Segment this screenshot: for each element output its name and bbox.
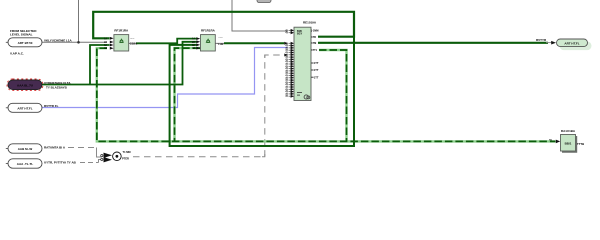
svg-text:3A: 3A	[192, 44, 195, 47]
arrowhead selected net into U2 pin 4	[196, 47, 200, 50]
arrowhead into U3 for dashed gray wire	[284, 54, 287, 57]
arrowhead into U2 pin 1	[196, 37, 200, 40]
tag oval far right with light green shadow	[557, 39, 592, 50]
U3 pin 16	[285, 72, 294, 76]
U3 pin 8	[285, 53, 294, 57]
U3 pin 23	[285, 88, 294, 92]
tag oval2	[6, 103, 42, 112]
output block U4	[549, 129, 584, 152]
wire blue from tag oval2 to U3 (left pin)	[42, 48, 288, 108]
svg-text:2A: 2A	[104, 41, 107, 44]
U3 pin 22	[285, 86, 294, 90]
arrowhead selected net into U1 pin 4	[110, 47, 114, 50]
svg-text:......: ......	[130, 37, 135, 40]
svg-text:1TT: 1TT	[314, 61, 319, 65]
wire green feedback loop U3 output to U1 pin 1 (top enclosure)	[93, 12, 354, 39]
svg-text:ART HT.FL: ART HT.FL	[17, 106, 32, 110]
svg-text:RA1U1BA: RA1U1BA	[561, 129, 576, 133]
arrowhead into U1 pin 1	[110, 37, 114, 40]
svg-text:RE1019A: RE1019A	[303, 21, 317, 25]
labels for purple tag wire	[44, 81, 71, 90]
U3 pin 19	[285, 79, 294, 83]
U3 pin 20	[285, 81, 294, 85]
wire gray net from top edge to tag AVT (vertical drop)	[78, 0, 80, 42]
wire green branch to U1 pin 3	[90, 45, 110, 85]
svg-text:TTTB: TTTB	[577, 142, 584, 146]
svg-text:RVTTR FL: RVTTR FL	[44, 104, 59, 108]
svg-text:1A: 1A	[192, 37, 195, 40]
U3 pin 25	[285, 92, 294, 96]
wire green from purple tag to U2 pin 2 and U1 pin 3	[42, 42, 197, 85]
gray terminator box at top edge	[257, 0, 271, 3]
svg-text:2A: 2A	[192, 41, 195, 44]
svg-text:3A: 3A	[104, 44, 107, 47]
svg-text:AAB M.-W: AAB M.-W	[18, 147, 33, 151]
svg-text:4A: 4A	[192, 47, 195, 50]
U3 pin 21	[285, 83, 294, 87]
arrowhead gray wire into U1 pin 2	[110, 41, 114, 44]
tag oval4	[6, 159, 42, 168]
svg-text:TY BLAZBAYB: TY BLAZBAYB	[46, 86, 68, 90]
tag oval1 (top left)	[6, 38, 42, 47]
arrowhead selected net into U4	[556, 140, 560, 144]
svg-text:T1 MM: T1 MM	[123, 150, 131, 154]
svg-text:4Y: 4Y	[285, 32, 288, 35]
U3 pin 1	[285, 29, 294, 33]
U3 pin 2	[285, 31, 294, 35]
wire dashed gray from tag oval3 down to gate input 1	[68, 148, 102, 158]
relay block U1	[104, 29, 138, 51]
U3 pin 24	[285, 90, 294, 94]
junction dot on green output net	[353, 41, 356, 44]
U3 right stub pins with labels	[311, 30, 319, 80]
U3 pin 11	[285, 60, 294, 64]
U3 pin 4	[285, 44, 294, 48]
U3 pin 6	[285, 49, 294, 53]
U3 pin 3	[285, 42, 294, 46]
svg-text:4Y: 4Y	[285, 95, 288, 98]
U3 pin 5	[285, 46, 294, 50]
U3 pin 12	[285, 63, 294, 67]
wire dashed gray from tag oval4 to gate input 2	[80, 160, 102, 163]
svg-text:1TM: 1TM	[311, 42, 316, 45]
svg-text:1TT: 1TT	[314, 68, 319, 72]
U3 pin 17	[285, 74, 294, 78]
U3 pin 13	[285, 65, 294, 69]
wire selected net underlay (light green)	[97, 48, 556, 141]
svg-text:......: ......	[219, 36, 224, 39]
wire gray from top edge into U3 pin 1	[232, 0, 288, 31]
logic gate / comparator symbol	[101, 152, 121, 162]
wire selected net dark green dashes	[97, 48, 556, 141]
gate labels	[122, 150, 131, 160]
svg-text:1TB: 1TB	[311, 36, 316, 39]
svg-text:LEVEL SIGNAL: LEVEL SIGNAL	[10, 32, 33, 36]
svg-text:TD: TD	[549, 140, 552, 142]
wire gray from tag oval1 to U1 pin 2	[42, 41, 107, 43]
svg-text:ART HT.FL: ART HT.FL	[564, 42, 579, 46]
svg-text:VYDERZHKE FLTA: VYDERZHKE FLTA	[44, 81, 71, 85]
U3 pin 9	[285, 56, 294, 60]
wire green branch loop down to U2 pin 4 (middle enclosure)	[170, 37, 354, 146]
svg-text:V.AP A.C.: V.AP A.C.	[10, 51, 24, 55]
U3 left pin rows	[285, 29, 294, 98]
svg-text:VKLYUCHENIE L1A: VKLYUCHENIE L1A	[44, 38, 73, 42]
svg-text:1TT: 1TT	[314, 75, 319, 79]
svg-text:RF1R1RA: RF1R1RA	[114, 29, 129, 33]
tag oval3	[6, 144, 42, 153]
wire dashed gray from gate output up to U3 left pin	[133, 55, 284, 157]
U3 pin 7	[285, 51, 294, 55]
svg-text:ART BT.50: ART BT.50	[18, 41, 33, 45]
junction dot node A	[77, 41, 80, 44]
svg-text:Y1M: Y1M	[217, 42, 224, 46]
svg-text:UYTR, PYTITYA TY AB: UYTR, PYTITYA TY AB	[44, 160, 77, 164]
svg-text:1A: 1A	[104, 37, 107, 40]
svg-text:RATUMTA BI A: RATUMTA BI A	[44, 145, 66, 149]
wire green U2 output to U3 left pin	[224, 42, 284, 44]
U3 pin 18	[285, 76, 294, 80]
svg-text:BB/1: BB/1	[565, 142, 572, 146]
svg-text:RF1R1RA: RF1R1RA	[201, 29, 216, 33]
corner ticks for dashed gray wire	[262, 55, 268, 157]
arrowhead U2 output into U3	[284, 42, 287, 45]
arrowhead into U1 pin 3	[110, 44, 114, 47]
svg-text:PTER: PTER	[122, 157, 129, 161]
U3 pin 15	[285, 69, 294, 73]
text note top-left	[10, 29, 37, 37]
arrowhead into U2 pin 3	[196, 44, 200, 47]
relay block U2	[192, 29, 224, 51]
main logic block U3	[294, 21, 317, 101]
svg-text:AAA BL.7U: AAA BL.7U	[17, 84, 33, 88]
wire gray tail and arrowhead into right tag oval	[546, 42, 552, 44]
wire green U1 output to U2 pin 1	[136, 39, 197, 44]
svg-text:4A: 4A	[104, 47, 107, 50]
U3 pin 10	[285, 58, 294, 62]
svg-text:1TT1: 1TT1	[311, 49, 317, 52]
svg-text:RVTYR: RVTYR	[536, 38, 547, 42]
U3 pin 14	[285, 67, 294, 71]
tag oval selected (purple) with red selection dashes	[7, 79, 43, 91]
svg-text:BGY: BGY	[297, 33, 303, 36]
arrowhead into U2 pin 2	[196, 40, 200, 43]
U3 pin 26	[285, 95, 294, 99]
wire green U3 output to far-right tag oval	[318, 42, 548, 44]
svg-text:AAA -TL.TL: AAA -TL.TL	[17, 162, 34, 166]
svg-text:(-1MM: (-1MM	[311, 30, 318, 33]
